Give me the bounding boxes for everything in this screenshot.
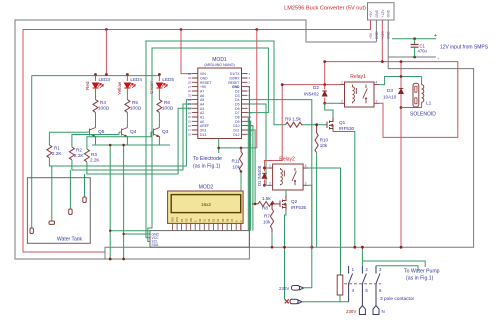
wire green common electrode down: [31, 76, 33, 228]
LED5 green: [149, 76, 174, 100]
svg-text:+5V: +5V: [369, 32, 373, 39]
svg-text:18: 18: [188, 124, 192, 128]
wire green R4 to Q5 collector: [95, 112, 97, 127]
node D3 solenoid bottom junction: [400, 106, 403, 109]
wire green LED anode bus: [32, 75, 160, 77]
resistor R5 100 ohm: [125, 100, 142, 113]
svg-text:D7: D7: [235, 111, 239, 115]
wire green D9 bundle: [248, 126, 253, 231]
wire green pole3 to water pump: [376, 266, 418, 271]
node Q1 source ground junction: [353, 246, 356, 249]
svg-text:Red: Red: [85, 81, 90, 90]
electrode tip mid: [69, 209, 72, 215]
LM2596 buck converter module U1: [284, 3, 394, 20]
node D3 top junction: [400, 60, 403, 63]
svg-text:1: 1: [269, 164, 271, 168]
svg-text:16x2: 16x2: [201, 202, 211, 207]
contactor pole 2: [362, 266, 366, 306]
wire green pole2 feed: [361, 247, 363, 266]
svg-text:R5: R5: [132, 100, 138, 105]
wire green Q4 base to R2: [72, 132, 119, 147]
node emitter bus ground junction: [122, 258, 125, 261]
svg-text:21: 21: [188, 111, 192, 115]
node C1 bottom junction: [413, 56, 416, 59]
svg-text:(ARDUINO NANO): (ARDUINO NANO): [204, 63, 234, 67]
svg-text:N: N: [382, 309, 385, 314]
node D3 gray line junction: [400, 246, 403, 249]
node relay2 feed junction: [281, 83, 284, 86]
MOD1 Arduino Nano module box: [198, 57, 242, 139]
contactor coil: [306, 275, 349, 302]
svg-text:R10: R10: [320, 138, 329, 143]
wire gray MOD1 GND to LCD box: [248, 87, 250, 248]
wire gray buck gnd pin stub: [375, 20, 377, 42]
wire red VIN feed: [181, 30, 192, 74]
pin labels below buck module: [369, 30, 391, 39]
wire green Q2 drain to relay2: [285, 190, 287, 195]
svg-text:SOLENOID: SOLENOID: [410, 112, 436, 118]
svg-text:10A10: 10A10: [383, 95, 397, 100]
wire green R5 to Q4 collector: [126, 112, 128, 127]
capacitor C1 470u: [411, 39, 428, 57]
node second ground junction: [109, 258, 112, 261]
svg-text:A5: A5: [200, 98, 204, 102]
wire red relay2 pin2 stub: [264, 184, 267, 186]
wire green relay2 pin3 to contactor coil: [308, 185, 312, 247]
svg-text:R1: R1: [54, 146, 60, 151]
svg-text:3: 3: [305, 181, 307, 185]
svg-text:230V: 230V: [279, 286, 289, 291]
svg-text:L1: L1: [426, 101, 432, 107]
connector 230V live input: [279, 286, 304, 292]
transistor Q2 IRF535: [277, 195, 286, 211]
svg-text:R4: R4: [100, 100, 106, 105]
svg-text:(as in Fig.1): (as in Fig.1): [406, 276, 434, 282]
svg-text:3 pole contactor: 3 pole contactor: [380, 296, 415, 302]
svg-text:D10: D10: [233, 124, 239, 128]
LCD pin number marks: [172, 217, 243, 222]
solenoid L1: [401, 77, 436, 118]
relay1: [340, 74, 380, 107]
MOD1 right pin labels: [228, 72, 240, 137]
svg-text:100Ω: 100Ω: [130, 106, 142, 111]
wire green R3 bottom sense line to A3: [87, 108, 192, 174]
wire gray ground frame top: [15, 20, 376, 259]
LED3 red: [85, 76, 110, 100]
wire green Q2 source down to N line: [285, 211, 287, 300]
resistor R11 10k: [232, 147, 243, 173]
svg-text:24: 24: [188, 98, 192, 102]
svg-text:D4: D4: [235, 98, 239, 102]
svg-text:SDA: SDA: [152, 243, 160, 247]
I2C pin labels: [152, 233, 160, 248]
electrode tip high: [83, 197, 86, 203]
MOD1 left pin numbers: [188, 72, 192, 137]
svg-text:A2: A2: [200, 111, 204, 115]
resistor R9 1.5k: [285, 117, 327, 128]
resistor R2 2.2K: [69, 147, 84, 160]
wire red relay1 pin1 rail: [282, 84, 339, 86]
svg-text:+5V: +5V: [369, 11, 373, 18]
svg-text:R9 1.5k: R9 1.5k: [285, 117, 302, 122]
wire green frame A around MOD1 to R9: [146, 41, 286, 238]
svg-text:30: 30: [188, 72, 192, 76]
wire green D10 bundle to R8: [248, 130, 256, 204]
node 5V rail branch junction: [255, 28, 258, 31]
node buck 12V junction: [381, 60, 384, 63]
svg-text:1.5k: 1.5k: [262, 196, 271, 201]
wire green D7 bundle: [247, 117, 250, 231]
svg-text:GND: GND: [387, 31, 391, 39]
wire green R6 to Q3 collector: [158, 112, 160, 127]
wire red buck 12V pin down: [381, 20, 383, 62]
diode D1 1N5408 rotated label: [257, 165, 267, 186]
svg-text:GND: GND: [387, 9, 391, 17]
svg-text:(as in Fig.1): (as in Fig.1): [193, 164, 221, 170]
LCD pin stubs: [173, 223, 241, 230]
svg-text:2: 2: [341, 99, 343, 103]
I2C backpack box below LCD: [150, 231, 249, 248]
svg-text:LED3: LED3: [99, 77, 111, 82]
svg-text:D3: D3: [387, 88, 393, 93]
svg-text:D1/TX: D1/TX: [230, 72, 240, 76]
resistor R10 10k: [315, 125, 329, 153]
svg-text:AREF: AREF: [200, 124, 209, 128]
MOD1 right pin stubs: [242, 74, 248, 135]
wire green R2 bottom sense line to A4: [72, 104, 192, 170]
wire green pole2 to water pump: [362, 261, 425, 267]
transistor Q3: [151, 128, 159, 139]
MOD1 right pin numbers: [249, 72, 253, 137]
svg-text:R6: R6: [164, 100, 170, 105]
svg-text:+12V: +12V: [381, 9, 385, 18]
svg-text:D1 IN5408: D1 IN5408: [257, 165, 262, 186]
svg-text:2.2K: 2.2K: [74, 153, 84, 158]
node junction on 5V rail for VIN: [180, 28, 183, 31]
node C1 top junction: [413, 37, 416, 40]
svg-text:Yellow: Yellow: [117, 81, 122, 95]
svg-text:Relay1: Relay1: [350, 74, 366, 80]
resistor R7 10k: [263, 203, 274, 233]
node relay1 12V junction: [323, 60, 326, 63]
resistor R8 1.5k: [252, 196, 277, 211]
svg-text:3: 3: [376, 99, 378, 103]
electrode tip low: [49, 221, 55, 224]
contactor pole 1: [349, 266, 353, 302]
svg-text:LM2596 Buck Converter (5V out): LM2596 Buck Converter (5V out): [284, 6, 366, 12]
svg-text:2.2K: 2.2K: [90, 158, 100, 163]
transistor Q1 IRF530: [327, 117, 333, 132]
MOD2 LCD module: [168, 185, 244, 224]
svg-text:D13: D13: [200, 133, 206, 137]
svg-text:To Water Pump: To Water Pump: [404, 269, 440, 275]
wire green D4 down to 230V feed: [248, 100, 312, 248]
node junction on 5V rail for LED column: [105, 28, 108, 31]
transistor Q4: [119, 128, 127, 139]
svg-text:IN5402: IN5402: [304, 92, 319, 97]
node LED anode junctions: [94, 73, 161, 76]
MOD1 left pin labels: [200, 72, 211, 137]
resistor R4 100 ohm: [93, 100, 110, 113]
svg-text:100Ω: 100Ω: [162, 106, 174, 111]
wire red D3 branch: [400, 62, 402, 248]
svg-text:RS: RS: [185, 218, 188, 222]
terminal N output pentagon: [373, 306, 385, 315]
connector N neutral input: [285, 299, 306, 304]
resistor R1 2.2K: [47, 145, 62, 158]
wire green D5 to relay2 column: [248, 104, 267, 185]
node pole2 feed junction: [361, 246, 364, 249]
contactor dashed linkage: [344, 283, 381, 285]
wire green Q5 base to R1: [49, 132, 87, 145]
wire red +5V top frame: [23, 20, 371, 252]
svg-text:+12V: +12V: [381, 30, 385, 39]
svg-text:+: +: [434, 33, 437, 39]
terminal 230V output pentagon: [346, 306, 365, 315]
node relay2 pin3 line junction: [310, 246, 313, 249]
wire green D8 bundle: [248, 121, 251, 230]
svg-text:D2: D2: [313, 85, 319, 90]
svg-text:Relay2: Relay2: [279, 157, 295, 163]
svg-text:4: 4: [305, 164, 307, 168]
wire green electrode 4: [84, 174, 86, 197]
svg-text:IRF530: IRF530: [339, 126, 355, 131]
wire red drop to LED anode bus: [105, 30, 107, 76]
svg-text:VIN: VIN: [200, 72, 206, 76]
svg-text:+5V: +5V: [200, 85, 207, 89]
node electrode junction: [217, 147, 220, 150]
svg-text:Water Tank: Water Tank: [57, 237, 83, 243]
svg-text:IRF535: IRF535: [291, 205, 307, 210]
wire red sensor pullup feed from 5V rail: [256, 30, 258, 148]
wire green second ground drop: [110, 145, 150, 259]
svg-text:To Electrode: To Electrode: [193, 156, 222, 162]
svg-text:100Ω: 100Ω: [98, 106, 110, 111]
wire green 12V plus input: [392, 38, 436, 40]
svg-text:470u: 470u: [418, 49, 428, 54]
wire green emitter bus: [92, 138, 170, 145]
relay2: [268, 157, 309, 191]
transistor Q5: [87, 128, 96, 139]
wire green R7 bottom to ground frame: [271, 232, 273, 247]
svg-text:LED5: LED5: [162, 77, 174, 82]
wire green electrode 3: [69, 170, 71, 209]
svg-text:10k: 10k: [233, 165, 241, 170]
wire green frame B around MOD1 to D10: [148, 48, 269, 242]
svg-text:10k: 10k: [263, 220, 271, 225]
svg-text:LED4: LED4: [130, 77, 142, 82]
wire gray ground frame bottom: [105, 20, 474, 259]
svg-text:R11: R11: [232, 159, 241, 164]
LED4 yellow: [117, 76, 142, 100]
water tank box: [27, 178, 90, 244]
wire red relay coil feed down to relay2: [264, 85, 282, 168]
svg-text:D12: D12: [233, 133, 239, 137]
svg-text:10k: 10k: [320, 143, 328, 148]
wire green R1 bottom sense line to A5: [49, 100, 191, 166]
svg-text:GND: GND: [375, 9, 379, 17]
svg-text:VDD: VDD: [176, 217, 179, 222]
svg-text:R2: R2: [76, 148, 82, 153]
svg-text:230V: 230V: [346, 309, 356, 314]
node Q2 source bottom junction: [283, 246, 286, 249]
wire green relay2 pin4 to contactor pole1: [308, 168, 340, 275]
wire green 230V connector feed: [304, 247, 312, 288]
MOD1 left pin stubs: [192, 74, 198, 135]
svg-text:Q4: Q4: [130, 129, 137, 135]
svg-text:R7: R7: [264, 214, 270, 219]
svg-text:R8: R8: [262, 205, 268, 210]
wire green relay1 pin2 to Q1 drain: [325, 103, 340, 117]
diode D2 1N5402: [304, 83, 327, 105]
svg-text:VSS: VSS: [172, 217, 175, 222]
contactor pole numbers: [352, 267, 382, 293]
wire green emitter bus drop to ground: [124, 145, 150, 259]
node D3 solenoid top junction: [400, 75, 403, 78]
svg-text:27: 27: [188, 85, 192, 89]
contactor pole 3: [376, 266, 380, 306]
svg-text:4: 4: [376, 81, 378, 85]
svg-text:MOD2: MOD2: [199, 185, 214, 191]
svg-text:1: 1: [341, 81, 343, 85]
diode D3 10A10: [383, 88, 403, 100]
svg-text:GND: GND: [375, 31, 379, 39]
svg-text:2.2K: 2.2K: [52, 151, 62, 156]
wire gray 12V minus branch: [388, 56, 436, 58]
wire green R11 down to I2C box: [240, 172, 242, 231]
svg-text:GND: GND: [232, 85, 240, 89]
wire green to electrode and R11: [219, 139, 257, 154]
wire red 12V to relay1 drop: [324, 62, 326, 85]
wire green electrode 2: [51, 166, 53, 221]
svg-text:Q2: Q2: [291, 199, 298, 204]
resistor R3 2.2K: [84, 149, 100, 163]
wire red 12V rail to solenoid loop: [325, 62, 458, 138]
svg-text:R3: R3: [91, 152, 97, 157]
svg-text:12V input from SMPS: 12V input from SMPS: [440, 45, 489, 51]
resistor R6 100 ohm: [157, 100, 174, 113]
wire green R10 and Q1 source to 230V line: [317, 130, 355, 247]
svg-text:Q1: Q1: [339, 120, 346, 125]
wire green relay1 pin4 to solenoid: [379, 77, 422, 85]
svg-text:2: 2: [269, 181, 271, 185]
svg-text:16: 16: [188, 133, 192, 137]
wire green Q3 base to R3: [87, 132, 151, 149]
svg-text:Q3: Q3: [162, 129, 169, 135]
electrode tip common: [30, 228, 33, 234]
